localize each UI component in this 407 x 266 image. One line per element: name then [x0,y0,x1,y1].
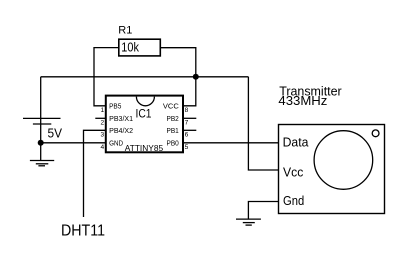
svg-text:10k: 10k [121,41,139,55]
svg-text:8: 8 [185,107,189,114]
svg-text:GND: GND [109,138,123,147]
svg-text:IC1: IC1 [136,109,152,121]
svg-text:PB4/X2: PB4/X2 [109,126,133,135]
svg-text:PB0: PB0 [167,138,179,147]
svg-text:DHT11: DHT11 [61,223,105,240]
svg-text:5: 5 [185,144,189,151]
svg-text:3: 3 [101,132,105,139]
svg-text:Data: Data [283,135,310,150]
svg-text:PB1: PB1 [167,126,179,135]
svg-text:4: 4 [101,144,105,151]
svg-text:Vcc: Vcc [283,166,303,180]
svg-text:1: 1 [101,107,105,114]
svg-text:5V: 5V [48,125,63,140]
svg-text:433MHz: 433MHz [278,93,327,108]
svg-text:PB3/X1: PB3/X1 [109,114,133,123]
svg-text:VCC: VCC [163,102,180,111]
svg-text:6: 6 [185,132,189,139]
svg-text:PB5: PB5 [109,102,121,111]
svg-text:PB2: PB2 [167,114,179,123]
svg-text:2: 2 [101,120,105,127]
svg-text:ATTINY85: ATTINY85 [125,143,164,153]
svg-text:R1: R1 [118,25,132,37]
svg-text:Gnd: Gnd [283,194,304,208]
svg-text:7: 7 [185,120,189,127]
